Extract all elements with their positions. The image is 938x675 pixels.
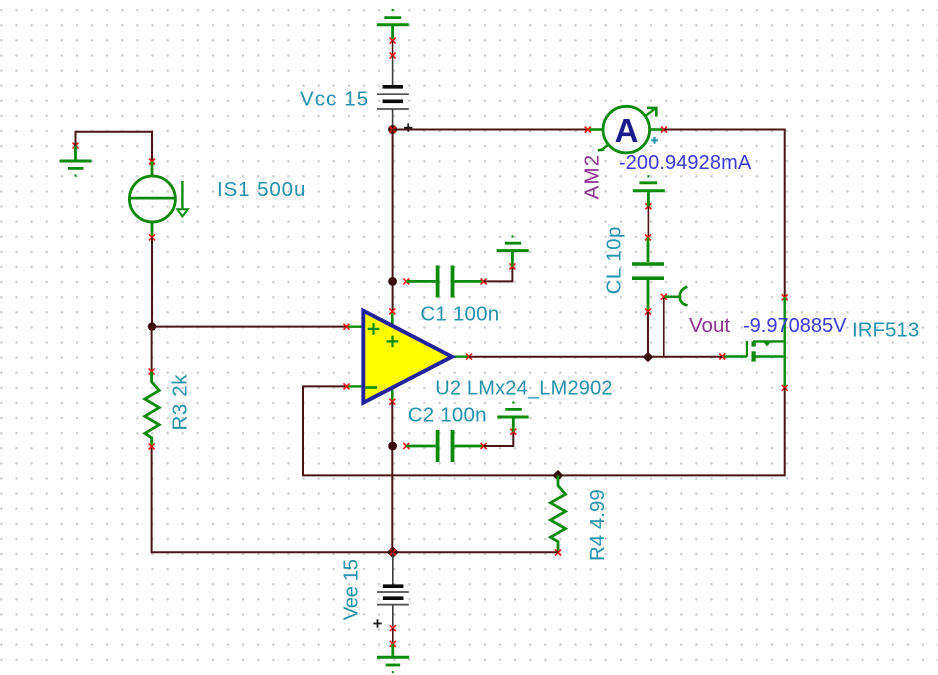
svg-text:Vcc 15: Vcc 15 [300, 87, 369, 110]
wire (Vee battery to bottom ground) [392, 628, 394, 644]
transistor RF513 (IRF513 N-MOSFET) [719, 294, 787, 391]
node (Vcc / supply rail junction) [388, 125, 397, 134]
svg-text:IRF513: IRF513 [852, 319, 919, 342]
wire (op-amp bottom pin down through C2 node to Vee junction) [391, 402, 393, 553]
capacitor C1 100n [403, 266, 486, 298]
wire (Vcc node to ammeter) [393, 129, 588, 131]
svg-text:IS1 500u: IS1 500u [217, 178, 306, 201]
wire (C1 to its ground) [484, 267, 513, 282]
current source IS1 [129, 159, 188, 241]
wire (IS1 to input node) [151, 237, 153, 326]
svg-text:A: A [615, 112, 639, 149]
resistor R3 2k [145, 369, 159, 450]
node (C2 junction) [388, 442, 397, 451]
svg-text:AM2: AM2 [581, 154, 604, 200]
wire (CL ground to CL top) [647, 206, 649, 237]
svg-text:-200.94928mA: -200.94928mA [619, 152, 752, 174]
ground (top, above Vcc, inverted) [377, 10, 409, 39]
wire (MOSFET source down to feedback rail, rail, riser, to inverting input) [303, 386, 785, 475]
node (C1 junction) [388, 277, 397, 286]
node (input junction) [148, 322, 156, 330]
svg-text:U2 LMx24_LM2902: U2 LMx24_LM2902 [435, 378, 613, 400]
svg-text:-9.970885V: -9.970885V [743, 315, 847, 337]
svg-text:Vout: Vout [689, 314, 730, 337]
wire (ground to Vcc battery) [392, 41, 394, 56]
wire (CL bottom to output node) [647, 312, 649, 357]
wire (op-amp output to MOSFET gate) [469, 356, 722, 358]
ammeter AM2 [585, 106, 667, 153]
resistor R4 4.99 [551, 475, 566, 555]
svg-text:R3 2k: R3 2k [168, 374, 191, 431]
node (feedback / R4 top junction) [553, 470, 564, 481]
battery Vee 15 [373, 552, 409, 631]
battery Vcc 15 [377, 56, 412, 132]
svg-text:Vee 15: Vee 15 [340, 559, 363, 620]
op-amp U2 [344, 308, 473, 404]
capacitor CL 10p [632, 234, 664, 314]
ground (at C1, inverted) [497, 237, 529, 270]
svg-text:C2 100n: C2 100n [408, 403, 487, 426]
svg-text:C1 100n: C1 100n [420, 303, 499, 326]
wire (left ground to IS1 top) [76, 132, 153, 162]
wire (input node down to R3) [151, 327, 153, 372]
svg-text:CL 10p: CL 10p [603, 226, 626, 294]
wire (ammeter to MOSFET drain) [664, 130, 785, 298]
wire (bottom rail) [152, 446, 558, 552]
probe Vout [661, 287, 688, 357]
node (output junction at CL) [643, 352, 654, 363]
ground (bottom, below Vee) [377, 641, 409, 672]
wire (input node to op-amp + input) [152, 326, 347, 328]
wire (C2 to its ground) [484, 432, 514, 446]
capacitor C2 100n [403, 430, 486, 462]
svg-text:R4 4.99: R4 4.99 [586, 489, 609, 561]
ground (left, above IS1) [60, 143, 92, 176]
node (Vee junction on bottom rail) [387, 546, 399, 558]
ground (at C2, inverted) [497, 403, 528, 435]
wire (Vcc rail down through C1 node to op-amp top pin) [392, 130, 394, 312]
ground (top of CL, inverted) [633, 176, 665, 209]
